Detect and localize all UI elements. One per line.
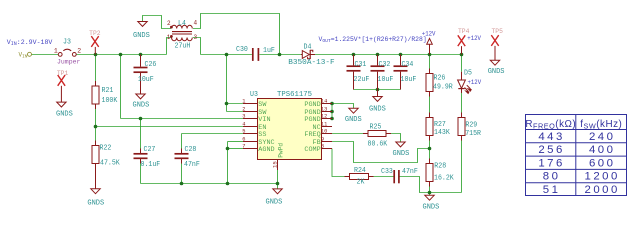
svg-text:11: 11	[321, 122, 327, 128]
svg-text:+12V: +12V	[468, 79, 482, 86]
svg-text:TP1: TP1	[57, 70, 69, 77]
svg-text:Jumper: Jumper	[57, 59, 81, 66]
svg-text:715R: 715R	[465, 130, 481, 138]
svg-text:100K: 100K	[102, 97, 118, 105]
svg-text:1: 1	[54, 48, 58, 55]
svg-text:U3: U3	[250, 91, 258, 99]
svg-text:22uF: 22uF	[354, 76, 370, 84]
svg-text:1: 1	[242, 98, 245, 104]
svg-text:SS: SS	[258, 131, 266, 139]
svg-text:FREQ: FREQ	[304, 131, 320, 139]
svg-text:4: 4	[194, 20, 198, 27]
svg-text:13: 13	[321, 107, 327, 113]
svg-text:R25: R25	[370, 124, 382, 132]
svg-text:4: 4	[242, 121, 245, 127]
svg-text:8: 8	[321, 144, 324, 150]
svg-text:C30: C30	[236, 46, 248, 54]
svg-text:1uF: 1uF	[263, 47, 275, 55]
svg-text:GNDS: GNDS	[133, 102, 150, 110]
svg-text:2: 2	[242, 106, 245, 112]
svg-text:L4: L4	[178, 20, 186, 28]
svg-text:2000: 2000	[585, 184, 620, 196]
svg-text:176: 176	[538, 158, 565, 170]
svg-text:GNDS: GNDS	[393, 150, 410, 158]
svg-text:443: 443	[538, 131, 565, 143]
svg-text:GNDS: GNDS	[87, 200, 104, 208]
svg-text:47nF: 47nF	[184, 161, 200, 169]
svg-text:C32: C32	[379, 61, 391, 69]
svg-text:14: 14	[321, 99, 327, 105]
svg-text:80.6K: 80.6K	[368, 141, 388, 149]
svg-text:5: 5	[242, 128, 245, 134]
svg-text:240: 240	[589, 131, 616, 143]
svg-text:C31: C31	[355, 61, 367, 69]
svg-text:D4: D4	[304, 44, 312, 52]
svg-text:143K: 143K	[434, 129, 450, 137]
svg-text:fSW(kHz): fSW(kHz)	[580, 119, 622, 130]
svg-text:GNDS: GNDS	[133, 32, 150, 40]
svg-text:49.9R: 49.9R	[433, 84, 453, 92]
svg-text:GNDS: GNDS	[266, 199, 283, 207]
svg-text:10uF: 10uF	[138, 76, 154, 84]
svg-text:12: 12	[321, 114, 327, 120]
svg-text:VOUT=1.225V*[1+(R26+R27)/R28]: VOUT=1.225V*[1+(R26+R27)/R28]	[319, 36, 427, 44]
svg-text:10: 10	[321, 129, 327, 135]
svg-text:27uH: 27uH	[175, 43, 191, 51]
svg-text:3: 3	[242, 113, 245, 119]
svg-text:R24: R24	[354, 167, 366, 175]
svg-text:AGND: AGND	[258, 146, 274, 154]
svg-text:C34: C34	[402, 61, 414, 69]
svg-text:J3: J3	[63, 39, 71, 47]
svg-text:3: 3	[194, 34, 198, 41]
svg-text:GNDS: GNDS	[369, 106, 386, 114]
svg-text:SW: SW	[258, 101, 267, 109]
svg-text:COMP: COMP	[304, 146, 320, 154]
svg-text:GNDS: GNDS	[56, 110, 73, 118]
svg-text:256: 256	[538, 144, 565, 156]
svg-text:R27: R27	[434, 121, 446, 129]
svg-text:47.5K: 47.5K	[100, 160, 120, 168]
svg-text:C33: C33	[381, 168, 393, 176]
svg-text:TP2: TP2	[89, 30, 101, 37]
svg-text:GNDS: GNDS	[488, 68, 505, 76]
svg-text:GNDS: GNDS	[423, 204, 440, 212]
svg-text:2: 2	[167, 20, 171, 27]
svg-text:R28: R28	[434, 162, 446, 170]
svg-text:9: 9	[321, 137, 324, 143]
svg-text:RFREQ(kΩ): RFREQ(kΩ)	[525, 119, 576, 130]
svg-text:R22: R22	[100, 145, 112, 153]
svg-text:+12V: +12V	[467, 35, 481, 42]
svg-text:6: 6	[242, 136, 245, 142]
svg-text:TP5: TP5	[492, 28, 504, 35]
svg-text:10uF: 10uF	[378, 76, 394, 84]
svg-text:400: 400	[589, 144, 616, 156]
svg-text:47nF: 47nF	[402, 168, 418, 176]
svg-text:600: 600	[589, 158, 616, 170]
svg-text:R21: R21	[102, 87, 114, 95]
svg-text:+12V: +12V	[422, 31, 436, 38]
svg-text:1200: 1200	[585, 171, 620, 183]
svg-text:B350A-13-F: B350A-13-F	[288, 59, 334, 67]
svg-text:80: 80	[543, 171, 561, 183]
svg-text:2: 2	[77, 48, 81, 55]
svg-text:PGND: PGND	[304, 116, 320, 124]
svg-text:TPS61175: TPS61175	[277, 91, 312, 99]
svg-text:R29: R29	[465, 122, 477, 130]
svg-text:16.2K: 16.2K	[434, 175, 454, 183]
svg-text:10uF: 10uF	[401, 76, 417, 84]
svg-text:C27: C27	[144, 146, 156, 154]
svg-text:51: 51	[543, 184, 561, 196]
svg-text:1: 1	[167, 34, 171, 41]
svg-text:D5: D5	[464, 70, 472, 78]
svg-text:PGND: PGND	[304, 101, 320, 109]
svg-text:C26: C26	[145, 61, 157, 69]
svg-text:15: 15	[271, 161, 278, 168]
svg-text:VIN: VIN	[258, 116, 270, 124]
svg-text:VIN:2.9V-18V: VIN:2.9V-18V	[7, 39, 53, 47]
svg-text:GNDS: GNDS	[345, 116, 362, 124]
svg-text:2K: 2K	[357, 179, 366, 187]
svg-text:PwPd: PwPd	[278, 143, 285, 158]
svg-text:0.1uF: 0.1uF	[141, 161, 161, 169]
svg-text:C28: C28	[185, 146, 197, 154]
svg-text:7: 7	[242, 143, 245, 149]
svg-text:R26: R26	[434, 75, 446, 83]
